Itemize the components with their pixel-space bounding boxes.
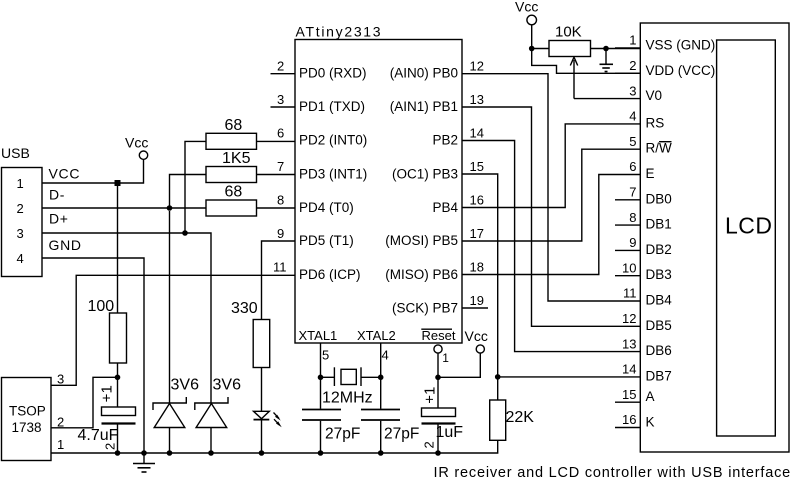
zener diode 3V6 (D-) — [153, 211, 199, 453]
LCD pin15 A stub — [615, 387, 655, 404]
svg-text:15: 15 — [622, 387, 636, 402]
svg-text:14: 14 — [470, 126, 484, 141]
svg-text:5: 5 — [322, 348, 329, 363]
svg-text:10: 10 — [622, 260, 636, 275]
svg-text:3V6: 3V6 — [171, 377, 200, 394]
pin PB6 pin18 — [385, 260, 484, 283]
junction pot left node — [529, 46, 535, 52]
pin PD4 pin8 — [277, 193, 354, 216]
pin PB1 pin13 — [390, 92, 484, 114]
svg-text:27pF: 27pF — [384, 426, 419, 443]
wire PB2 to LCD DB6 — [462, 141, 640, 352]
capacitor 27pF right — [361, 377, 419, 453]
LCD module — [640, 23, 789, 452]
LCD pin6 E — [629, 159, 654, 181]
LCD pin1 VSS — [615, 33, 715, 53]
svg-text:E: E — [646, 166, 655, 181]
svg-text:1738: 1738 — [12, 420, 42, 435]
svg-text:9: 9 — [277, 226, 284, 241]
svg-text:7: 7 — [277, 159, 284, 174]
LCD pin2 VDD — [615, 58, 715, 78]
wire TSOP pin2 to RC node — [51, 377, 118, 428]
pin PD2 pin6 — [277, 126, 367, 148]
svg-text:(OC1) PB3: (OC1) PB3 — [392, 167, 458, 182]
svg-text:D+: D+ — [49, 211, 69, 227]
LCD pin3 V0 — [629, 83, 662, 103]
svg-text:ATtiny2313: ATtiny2313 — [296, 24, 383, 40]
pin XTAL2 pin4 — [357, 328, 396, 377]
svg-text:K: K — [646, 415, 655, 430]
svg-text:DB0: DB0 — [646, 191, 672, 206]
svg-text:VSS (GND): VSS (GND) — [646, 38, 716, 53]
LCD pin8 DB1 stub — [615, 210, 672, 232]
wire PB0 to LCD DB4 — [462, 74, 640, 301]
svg-text:1: 1 — [629, 33, 636, 48]
LCD pin14 DB7 — [622, 362, 672, 384]
svg-text:(AIN1) PB1: (AIN1) PB1 — [390, 99, 458, 114]
svg-text:DB7: DB7 — [646, 368, 672, 383]
power Vcc symbol at reset — [438, 328, 488, 377]
svg-text:11: 11 — [623, 286, 637, 301]
wire D- row USB pin2 to resistor 68 — [42, 207, 206, 209]
svg-text:A: A — [646, 389, 655, 404]
svg-text:(MOSI) PB5: (MOSI) PB5 — [385, 233, 458, 248]
svg-text:6: 6 — [629, 159, 636, 174]
junction XTAL1 node — [318, 375, 324, 381]
pin stub PD1 pin3 — [271, 92, 366, 114]
wire GND row USB pin4 to ground — [42, 258, 144, 453]
svg-text:DB3: DB3 — [646, 267, 672, 282]
svg-text:2: 2 — [17, 201, 24, 216]
svg-text:13: 13 — [622, 336, 636, 351]
wire PB1 to LCD DB5 — [462, 107, 640, 326]
resistor 22K — [490, 377, 535, 440]
svg-text:PD4 (T0): PD4 (T0) — [299, 200, 354, 215]
svg-text:11: 11 — [273, 260, 287, 275]
svg-text:2: 2 — [277, 59, 284, 74]
svg-text:68: 68 — [225, 117, 243, 134]
svg-text:VDD (VCC): VDD (VCC) — [646, 63, 716, 78]
power Vcc symbol top — [515, 0, 538, 49]
junction zener1 on bus — [167, 450, 173, 456]
svg-text:(SCK) PB7: (SCK) PB7 — [392, 301, 458, 316]
svg-text:12: 12 — [622, 311, 636, 326]
zener diode 3V6 (D+) — [195, 377, 241, 454]
pin PD5 pin9 — [277, 226, 354, 248]
svg-text:3: 3 — [629, 83, 636, 98]
wire Vcc to resistor 100 — [117, 186, 119, 313]
svg-text:1: 1 — [17, 176, 24, 191]
junction pot right node — [603, 46, 609, 52]
svg-text:PD6 (ICP): PD6 (ICP) — [299, 267, 361, 282]
svg-text:GND: GND — [49, 237, 82, 253]
junction 100/4.7uF/TSOP node — [115, 375, 121, 381]
svg-text:Vcc: Vcc — [465, 328, 488, 344]
junction reset node — [435, 375, 441, 381]
pin XTAL1 pin5 — [299, 328, 338, 377]
svg-text:V0: V0 — [646, 88, 663, 103]
svg-text:100: 100 — [88, 298, 115, 315]
ground symbol at pot — [600, 49, 614, 72]
svg-text:USB: USB — [1, 145, 30, 161]
svg-text:DB1: DB1 — [646, 217, 672, 232]
svg-text:8: 8 — [629, 210, 636, 225]
LCD pin4 RS — [629, 109, 664, 131]
svg-text:PD3 (INT1): PD3 (INT1) — [299, 167, 367, 182]
LED D3 — [254, 411, 282, 453]
svg-text:16: 16 — [622, 412, 636, 427]
resistor 68 (D- to PD4) — [206, 184, 295, 217]
svg-text:16: 16 — [470, 193, 484, 208]
svg-text:10K: 10K — [555, 24, 582, 41]
svg-text:12: 12 — [470, 59, 484, 74]
LCD pin5 R/W — [629, 134, 672, 156]
svg-text:13: 13 — [470, 92, 484, 107]
LCD pin16 K stub — [615, 412, 655, 429]
LCD pin9 DB2 stub — [615, 235, 672, 257]
svg-text:(AIN0) PB0: (AIN0) PB0 — [390, 66, 458, 81]
wire PB4 to LCD RS — [462, 124, 640, 208]
LCD pin12 DB5 — [622, 311, 672, 333]
potentiometer 10K — [532, 24, 641, 99]
power Vcc symbol left — [125, 135, 148, 160]
capacitor 1uF electrolytic — [422, 377, 464, 453]
junction LED on bus — [259, 450, 265, 456]
junction 4.7uF on bus — [115, 450, 121, 456]
svg-text:DB6: DB6 — [646, 343, 672, 358]
pin PD6 pin11 — [273, 260, 361, 283]
svg-text:R/W: R/W — [646, 141, 673, 156]
connector USB J1 — [1, 145, 42, 277]
junction GND stem on bus — [141, 450, 147, 456]
LCD pin11 DB4 — [623, 286, 672, 308]
pin PD3 pin7 — [277, 159, 367, 182]
junction DB7 / 22K node — [495, 374, 501, 380]
pin Reset pin1 — [421, 328, 456, 377]
wire PB3 to LCD DB7 — [462, 174, 640, 377]
svg-text:DB5: DB5 — [646, 318, 672, 333]
svg-text:Vcc: Vcc — [515, 0, 538, 15]
wire Vcc to LCD VDD — [532, 49, 641, 74]
pin PB3 pin15 — [392, 159, 484, 182]
svg-text:PB2: PB2 — [432, 133, 458, 148]
svg-text:+1: +1 — [99, 385, 116, 402]
svg-text:PD0 (RXD): PD0 (RXD) — [299, 66, 367, 81]
svg-text:LCD: LCD — [725, 213, 773, 239]
svg-text:DB4: DB4 — [646, 293, 673, 308]
svg-text:VCC: VCC — [49, 166, 81, 182]
svg-text:5: 5 — [629, 134, 636, 149]
svg-text:68: 68 — [225, 184, 243, 201]
svg-text:PB4: PB4 — [432, 200, 458, 215]
svg-text:1uF: 1uF — [436, 424, 464, 441]
svg-text:6: 6 — [277, 126, 284, 141]
svg-text:2: 2 — [629, 58, 636, 73]
svg-text:18: 18 — [470, 260, 484, 275]
svg-text:19: 19 — [470, 293, 484, 308]
capacitor 4.7uF electrolytic — [78, 377, 136, 453]
resistor 100 — [88, 298, 127, 377]
svg-text:XTAL2: XTAL2 — [357, 328, 396, 343]
resistor 1K5 (D- to PD3) — [170, 150, 296, 208]
junction zener2 on bus — [208, 450, 214, 456]
svg-text:Reset: Reset — [422, 328, 456, 343]
svg-text:7: 7 — [629, 185, 636, 200]
pin stub PD0 pin2 — [271, 59, 367, 81]
IC ATtiny2313 U1 — [295, 24, 462, 344]
wire TSOP pin3 to PD6 (ICP) — [51, 275, 295, 385]
svg-text:PD1 (TXD): PD1 (TXD) — [299, 99, 365, 114]
junction D+ / 68 — [182, 230, 188, 236]
junction 27pF left on bus — [318, 450, 324, 456]
svg-text:330: 330 — [231, 300, 258, 317]
svg-text:12MHz: 12MHz — [322, 390, 373, 407]
svg-text:3V6: 3V6 — [213, 377, 242, 394]
svg-text:4: 4 — [629, 109, 636, 124]
svg-text:1: 1 — [57, 437, 64, 452]
svg-text:27pF: 27pF — [325, 426, 360, 443]
IR receiver TSOP1738 — [2, 372, 65, 461]
svg-text:8: 8 — [277, 193, 284, 208]
svg-text:XTAL1: XTAL1 — [299, 328, 338, 343]
svg-text:DB2: DB2 — [646, 242, 672, 257]
wire ground bus TSOP pin1 to 22K — [51, 440, 498, 453]
svg-text:4: 4 — [382, 348, 389, 363]
wire PD5 to resistor 330 — [262, 241, 296, 320]
junction 1uF on bus — [435, 450, 441, 456]
junction D- / 1K5 — [167, 205, 173, 211]
LCD pin13 DB6 — [622, 336, 672, 358]
junction VCC node — [115, 180, 121, 186]
junction XTAL2 node — [378, 375, 384, 381]
svg-text:D-: D- — [49, 187, 65, 203]
pin PB0 pin12 — [390, 59, 484, 81]
resistor 68 (D+ to PD2) — [185, 117, 295, 233]
svg-text:1: 1 — [442, 351, 449, 365]
svg-text:9: 9 — [629, 235, 636, 250]
svg-text:PD2 (INT0): PD2 (INT0) — [299, 133, 367, 148]
LCD pin10 DB3 stub — [615, 260, 672, 282]
svg-text:TSOP: TSOP — [9, 404, 46, 419]
pin stub PB7 pin19 — [392, 293, 488, 316]
svg-text:Vcc: Vcc — [125, 135, 148, 151]
svg-text:PD5 (T1): PD5 (T1) — [299, 233, 354, 248]
wire VCC row USB pin1 to Vcc symbol — [42, 160, 144, 184]
svg-text:4.7uF: 4.7uF — [78, 427, 119, 444]
svg-text:14: 14 — [622, 362, 636, 377]
svg-text:3: 3 — [57, 372, 64, 387]
crystal 12MHz — [321, 367, 381, 406]
svg-text:4: 4 — [17, 251, 24, 266]
capacitor 27pF left — [302, 377, 360, 453]
LCD pin7 DB0 stub — [615, 185, 672, 207]
svg-text:+1: +1 — [422, 387, 439, 404]
wire D+ row USB pin3 to zener D2 — [42, 233, 211, 403]
wire PB6 to LCD E — [462, 175, 640, 275]
wire pot wiper to LCD V0 — [574, 98, 640, 100]
svg-text:3: 3 — [277, 92, 284, 107]
svg-text:(MISO) PB6: (MISO) PB6 — [385, 267, 458, 282]
svg-text:15: 15 — [470, 159, 484, 174]
svg-text:2: 2 — [422, 441, 437, 448]
pin PB4 pin16 — [432, 193, 484, 216]
svg-text:3: 3 — [17, 226, 24, 241]
ground symbol main — [133, 453, 155, 472]
wire PB5 to LCD R/W — [462, 149, 640, 241]
svg-text:22K: 22K — [506, 409, 535, 426]
svg-text:17: 17 — [470, 226, 484, 241]
svg-text:IR receiver and LCD controller: IR receiver and LCD controller with USB … — [434, 465, 792, 479]
resistor 330 — [231, 300, 270, 411]
svg-text:1K5: 1K5 — [222, 150, 251, 167]
pin PB2 pin14 — [432, 126, 484, 148]
pin PB5 pin17 — [385, 226, 484, 248]
svg-text:RS: RS — [646, 115, 665, 130]
junction 27pF right on bus — [378, 450, 384, 456]
